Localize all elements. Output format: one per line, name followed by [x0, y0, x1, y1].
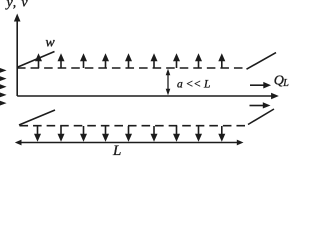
- down arrow 3: [80, 126, 87, 142]
- L dimension right arrowhead: [237, 140, 244, 146]
- bottom-right slash: [248, 109, 274, 125]
- down arrow 4: [102, 126, 109, 142]
- label L: [112, 143, 121, 159]
- svg-text:a << L: a << L: [177, 79, 210, 91]
- up arrow 4: [102, 53, 109, 68]
- bottom distributed load arrows (downward): [34, 126, 225, 142]
- a dimension double arrow: [166, 69, 171, 96]
- top distributed load arrows (upward): [35, 53, 225, 68]
- left arrowhead 3: [0, 84, 7, 89]
- y-axis line: [16, 21, 18, 96]
- down arrow 8: [195, 126, 202, 142]
- top-left diagonal w line: [17, 52, 55, 68]
- down arrow 9: [218, 126, 225, 142]
- left arrowhead 1: [0, 68, 7, 73]
- label Q_L: [274, 74, 289, 90]
- svg-text:L: L: [282, 78, 289, 89]
- down arrow 5: [125, 126, 132, 142]
- left arrowhead 5: [0, 101, 7, 106]
- L dimension line: [20, 142, 238, 144]
- down arrow 1: [34, 126, 41, 142]
- up arrow 5: [125, 53, 132, 68]
- up arrow 3: [80, 53, 87, 68]
- Q_L top arrow: [250, 82, 271, 89]
- svg-text:L: L: [112, 143, 121, 158]
- bottom-left diagonal: [19, 110, 55, 125]
- label y,v: [5, 0, 29, 11]
- svg-text:w: w: [45, 35, 55, 50]
- x-axis arrowhead: [271, 93, 279, 99]
- y-axis arrowhead: [14, 14, 21, 22]
- down arrow 2: [58, 126, 65, 142]
- label a << L: [177, 79, 210, 91]
- Q_L lower arrow: [250, 102, 271, 108]
- L dimension left arrowhead: [15, 140, 22, 146]
- svg-text:y, v: y, v: [5, 0, 29, 11]
- up arrow 8: [195, 53, 202, 68]
- down arrow 7: [173, 126, 180, 142]
- up arrow 9: [218, 53, 225, 68]
- x-axis line: [17, 95, 273, 97]
- down arrow 6: [151, 126, 158, 142]
- top-right slash: [247, 53, 277, 70]
- up arrow 6: [151, 53, 158, 68]
- left arrowhead 2: [0, 76, 7, 81]
- up arrow 7: [173, 53, 180, 68]
- top dashed line: [17, 67, 243, 69]
- left edge arrowheads (5): [0, 68, 7, 106]
- up arrow 1: [35, 53, 42, 68]
- bottom dashed line: [20, 125, 246, 127]
- left arrowhead 4: [0, 93, 7, 98]
- up arrow 2: [58, 53, 65, 68]
- label w: [45, 35, 55, 50]
